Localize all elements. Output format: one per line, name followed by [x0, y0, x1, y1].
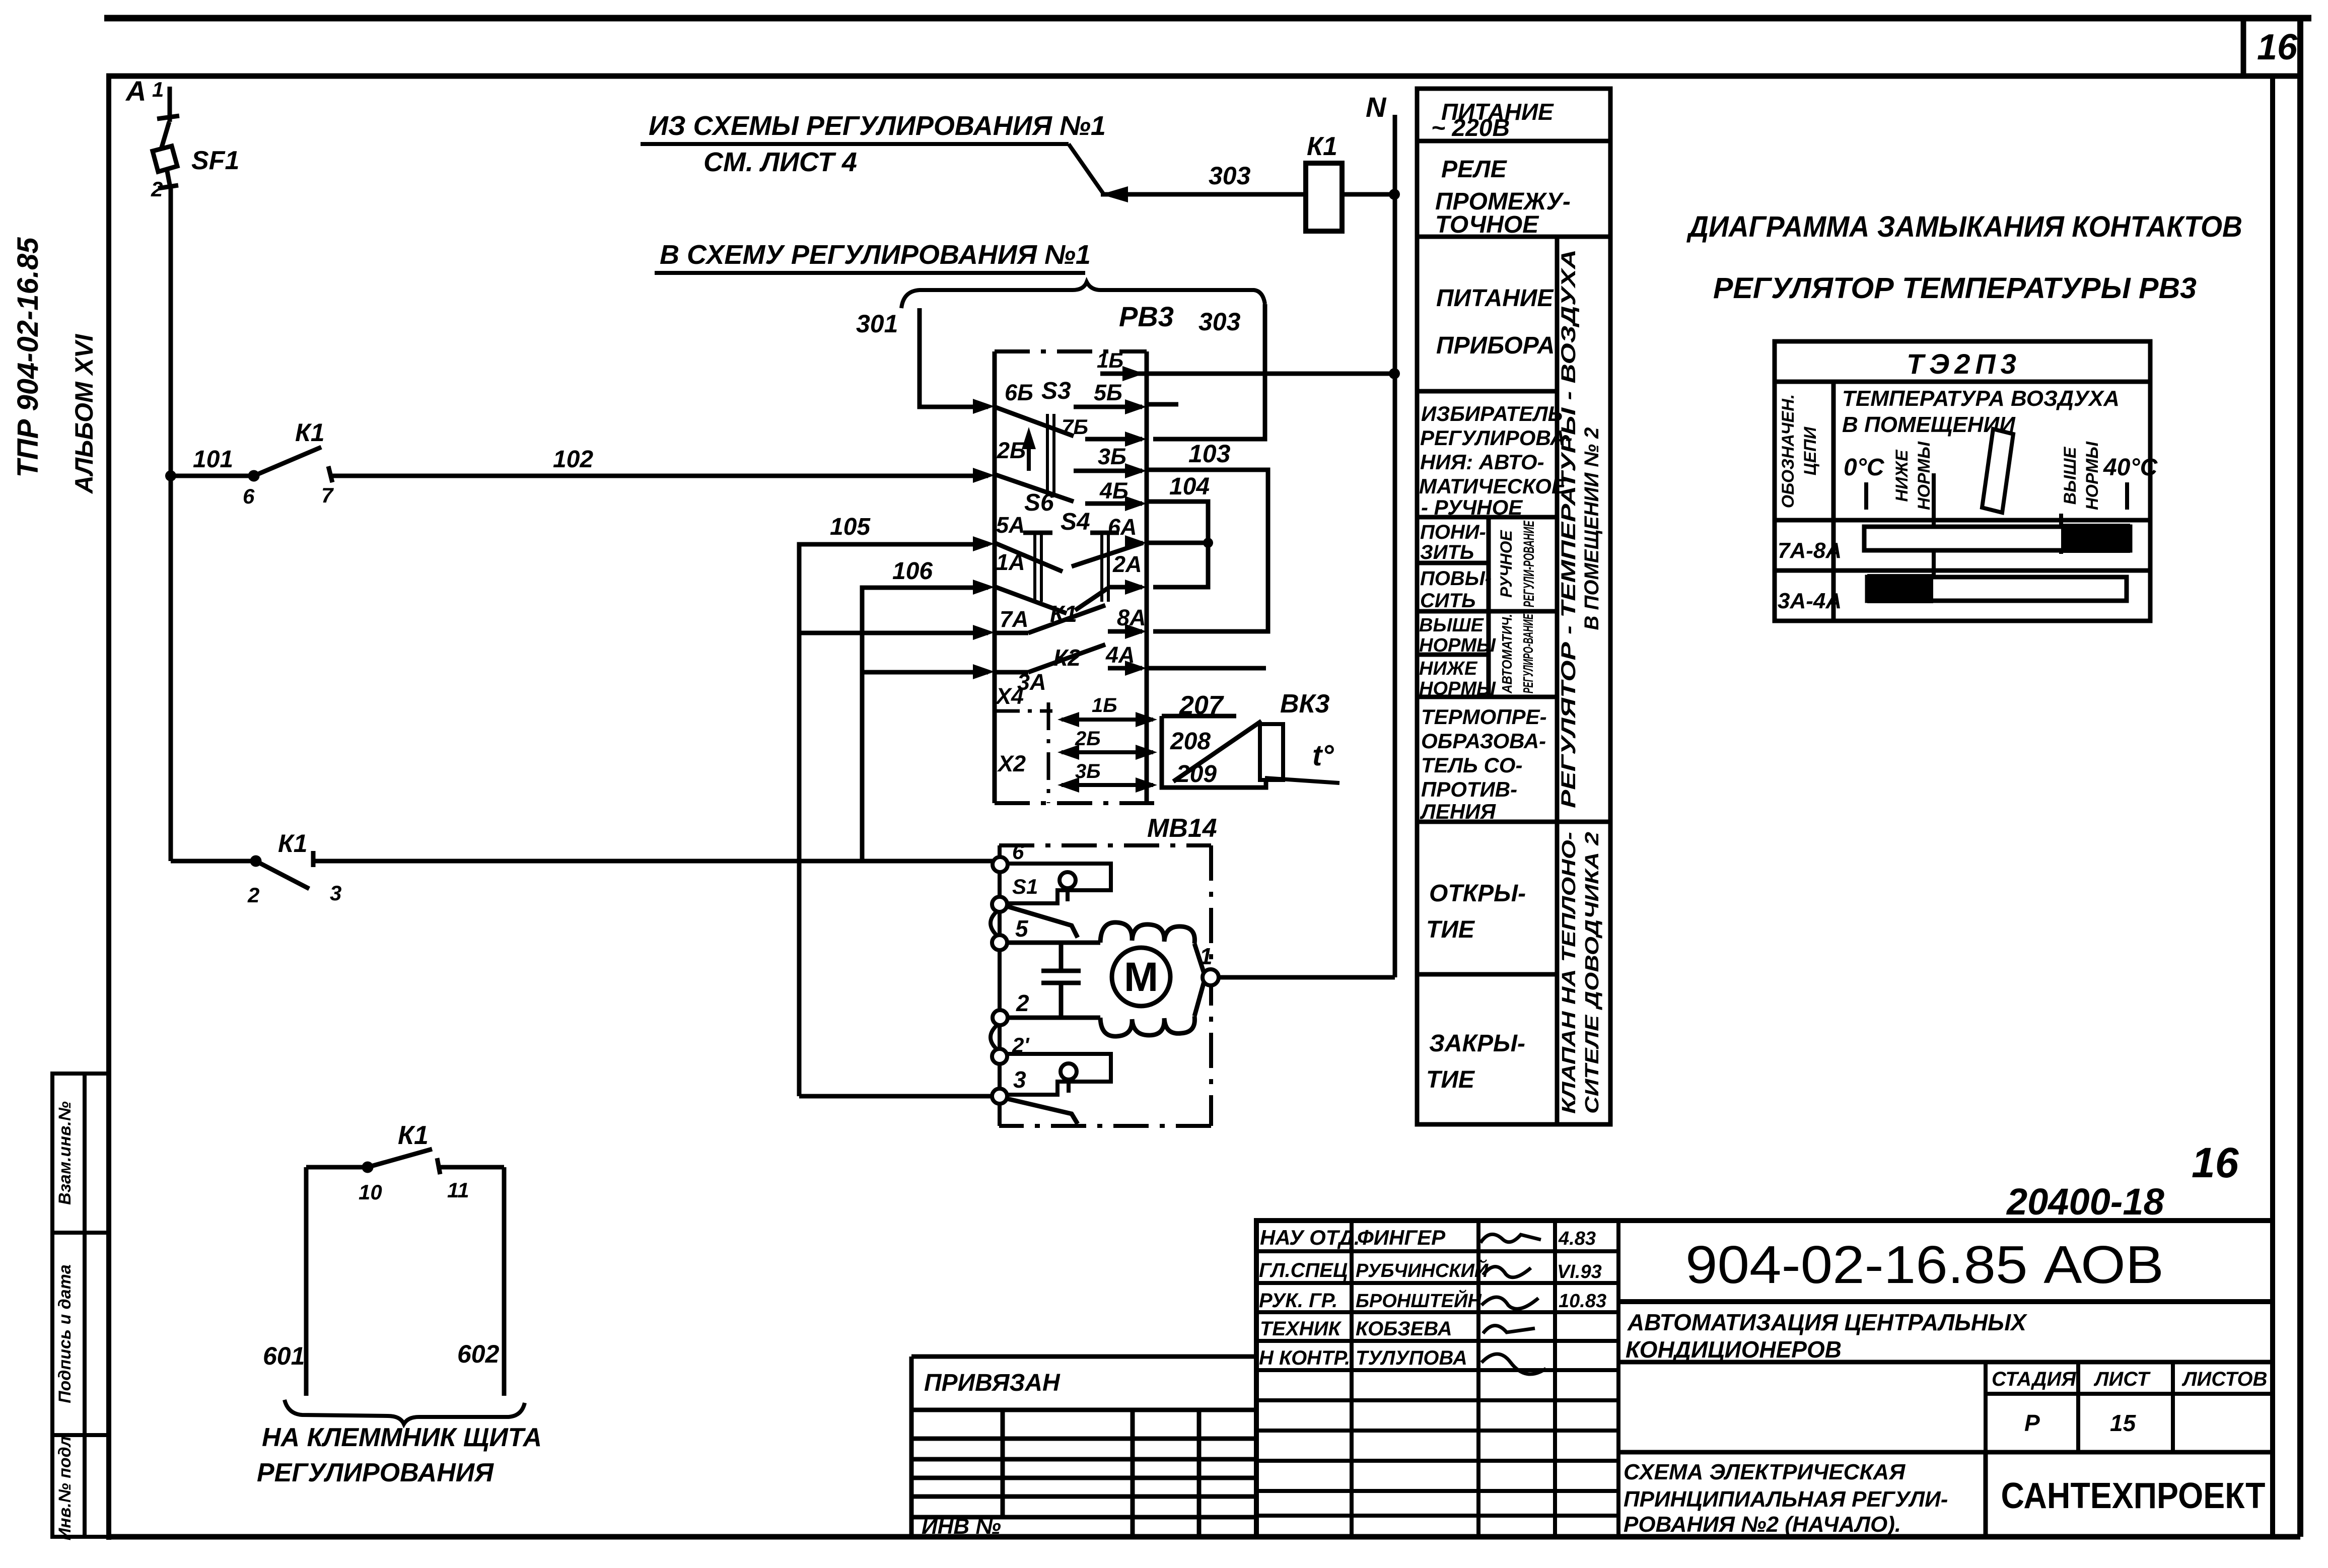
motor M winding bottom	[1100, 1016, 1194, 1036]
svg-text:602: 602	[457, 1340, 500, 1368]
wire 105 arrow into PV3 terminal 5A	[973, 536, 995, 551]
wire to MV14 terminal 3	[799, 1094, 991, 1099]
svg-text:ТИЕ: ТИЕ	[1426, 916, 1475, 943]
contact K1 (pins 6-7)	[250, 447, 332, 482]
svg-text:- РУЧНОЕ: - РУЧНОЕ	[1421, 495, 1523, 519]
note underline	[641, 142, 1069, 146]
svg-text:S1: S1	[1012, 875, 1038, 898]
limit switch box lower (3)	[1006, 1054, 1111, 1095]
terminal X4 dash	[995, 709, 1052, 713]
svg-text:103: 103	[1188, 440, 1231, 468]
junction on N at coil	[1389, 189, 1400, 200]
svg-text:10.83: 10.83	[1559, 1291, 1606, 1312]
svg-text:НОРМЫ: НОРМЫ	[2083, 441, 2102, 510]
svg-text:СИТЬ: СИТЬ	[1420, 590, 1475, 612]
svg-text:601: 601	[263, 1342, 305, 1370]
capacitor C	[1041, 943, 1081, 1018]
svg-text:16: 16	[2192, 1139, 2239, 1186]
svg-text:15: 15	[2110, 1410, 2137, 1436]
PV3 bottom boundary (dash-dot)	[995, 801, 1154, 805]
frame right outer border	[2297, 18, 2303, 1537]
wire 301 (from brace to PV3 terminal 6B)	[920, 308, 988, 407]
wire to PV3 terminal 7A	[799, 631, 988, 635]
svg-text:101: 101	[193, 446, 233, 473]
svg-text:К1: К1	[1050, 601, 1077, 627]
limit switch blade lower	[1007, 1099, 1078, 1124]
bar 7A-8A closed segment	[2061, 524, 2130, 553]
wire 1B to N	[1147, 372, 1395, 376]
wire 301 arrowhead at 6B	[973, 399, 995, 414]
svg-text:РУК. ГР.: РУК. ГР.	[1259, 1290, 1337, 1312]
svg-text:КОНДИЦИОНЕРОВ: КОНДИЦИОНЕРОВ	[1626, 1336, 1842, 1363]
svg-text:РОВАНИЯ №2 (НАЧАЛО).: РОВАНИЯ №2 (НАЧАЛО).	[1624, 1512, 1901, 1537]
frame right inner border	[2270, 76, 2275, 1537]
sensor link 3B double arrow	[1057, 777, 1157, 793]
wire 105	[799, 544, 988, 1096]
svg-text:106: 106	[892, 558, 933, 585]
svg-text:16: 16	[2257, 27, 2298, 67]
svg-text:Н КОНТР.: Н КОНТР.	[1259, 1347, 1350, 1369]
svg-text:ЗИТЬ: ЗИТЬ	[1420, 541, 1474, 563]
svg-text:1А: 1А	[996, 549, 1025, 575]
wire 602	[502, 1167, 507, 1396]
wire 6A to 104	[1147, 541, 1208, 545]
svg-text:303: 303	[1198, 308, 1241, 336]
svg-text:ИНВ №: ИНВ №	[922, 1514, 1001, 1539]
setpoint parallelogram	[1982, 429, 2013, 513]
svg-text:102: 102	[553, 446, 593, 473]
svg-text:ТИЕ: ТИЕ	[1426, 1066, 1475, 1093]
svg-text:ТОЧНОЕ: ТОЧНОЕ	[1435, 211, 1539, 238]
wire 106 arrow into PV3 terminal 1A	[973, 580, 995, 595]
svg-text:ТУЛУПОВА: ТУЛУПОВА	[1356, 1347, 1467, 1369]
svg-text:МАТИЧЕСКОЕ: МАТИЧЕСКОЕ	[1419, 474, 1567, 498]
svg-text:ПРИВЯЗАН: ПРИВЯЗАН	[924, 1370, 1061, 1396]
svg-text:5: 5	[1015, 915, 1029, 942]
svg-text:2Б: 2Б	[1075, 728, 1101, 750]
scale tick 40	[2125, 482, 2129, 510]
svg-text:209: 209	[1176, 761, 1217, 788]
svg-text:10: 10	[359, 1180, 382, 1204]
wire to PV3 terminal 3A	[862, 670, 988, 675]
svg-text:В СХЕМУ РЕГУЛИРОВАНИЯ №1: В СХЕМУ РЕГУЛИРОВАНИЯ №1	[660, 240, 1091, 270]
svg-text:РЕГУЛЯТОР ТЕМПЕРАТУРЫ РВ3: РЕГУЛЯТОР ТЕМПЕРАТУРЫ РВ3	[1713, 272, 2197, 305]
scale tick 0	[1864, 482, 1868, 510]
svg-text:2А: 2А	[1112, 551, 1142, 577]
wire 104 (4B to 2A)	[1147, 502, 1208, 587]
motor M circle	[1112, 948, 1170, 1006]
below-normal division line	[1932, 473, 1936, 579]
svg-text:ПРИБОРА: ПРИБОРА	[1436, 332, 1555, 359]
svg-text:БРОНШТЕЙН: БРОНШТЕЙН	[1356, 1289, 1482, 1312]
svg-text:А: А	[125, 75, 146, 107]
PV3 top boundary (dash-dot)	[995, 349, 1147, 353]
svg-text:2: 2	[1016, 990, 1029, 1016]
wire 303 left arrowhead	[1101, 186, 1128, 202]
svg-text:ОТКРЫ-: ОТКРЫ-	[1429, 880, 1526, 907]
4A arrowhead	[1125, 661, 1147, 676]
svg-text:5А: 5А	[996, 512, 1025, 538]
contact K2 (3A-4A)	[995, 645, 1142, 672]
svg-text:~ 220В: ~ 220В	[1431, 115, 1510, 141]
lamp symbol upper	[1060, 872, 1076, 901]
S3 actuation arrow (up)	[1022, 427, 1036, 471]
bar 3A-4A outline	[1867, 577, 2127, 601]
svg-text:РЕГУЛИРОВАНИЯ: РЕГУЛИРОВАНИЯ	[257, 1458, 494, 1487]
svg-text:3: 3	[330, 881, 341, 905]
svg-text:104: 104	[1169, 473, 1210, 500]
svg-text:ЛИСТ: ЛИСТ	[2093, 1368, 2151, 1390]
terminal 4B wire with arrow	[1085, 496, 1147, 511]
terminal 2A stub with arrow	[1108, 580, 1147, 595]
8A arrowhead	[1125, 624, 1147, 639]
motor terminal 1 circle	[1203, 969, 1219, 985]
contact K1 (7A-8A)	[995, 605, 1142, 633]
svg-text:РЕГУЛИРОВА-: РЕГУЛИРОВА-	[1420, 426, 1573, 450]
terminal 4A outside stub	[1147, 666, 1266, 671]
wire to MV14 (contact K1 2-3 branch)	[171, 859, 252, 864]
svg-text:ТЕЛЬ СО-: ТЕЛЬ СО-	[1421, 753, 1522, 777]
organization cell divider	[1984, 1452, 1988, 1537]
svg-text:2: 2	[247, 883, 259, 907]
svg-text:7: 7	[321, 483, 334, 507]
wire terminal 1 to N	[1219, 975, 1395, 980]
bow 2-2'	[991, 1024, 998, 1050]
project name cell divider	[1618, 1360, 2273, 1365]
junction on N at 1B wire	[1389, 368, 1400, 379]
junction 6A on 104	[1203, 538, 1213, 548]
note underline	[655, 271, 1085, 275]
svg-text:6: 6	[243, 484, 255, 508]
svg-text:Взам.инв.№: Взам.инв.№	[55, 1101, 75, 1205]
function table grid	[1417, 89, 1610, 1124]
svg-text:РЕГУЛИ-РОВАНИЕ: РЕГУЛИ-РОВАНИЕ	[1521, 520, 1537, 607]
svg-text:Р: Р	[2024, 1410, 2040, 1436]
svg-text:6А: 6А	[1108, 514, 1137, 540]
svg-text:105: 105	[830, 514, 871, 540]
svg-text:Подпись и дата: Подпись и дата	[55, 1264, 75, 1403]
stage/sheet header grid	[1618, 1362, 2273, 1452]
svg-text:АВТОМАТИЧ.: АВТОМАТИЧ.	[1499, 614, 1515, 694]
svg-text:3А-4А: 3А-4А	[1778, 589, 1842, 613]
svg-text:ТЕРМОПРЕ-: ТЕРМОПРЕ-	[1421, 705, 1547, 729]
svg-text:ИЗ СХЕМЫ РЕГУЛИРОВАНИЯ №1: ИЗ СХЕМЫ РЕГУЛИРОВАНИЯ №1	[649, 111, 1106, 141]
svg-text:НИЖЕ: НИЖЕ	[1892, 449, 1912, 502]
svg-text:СИТЕЛЕ ДОВОДЧИКА 2: СИТЕЛЕ ДОВОДЧИКА 2	[1582, 832, 1603, 1114]
bow S1'-5	[991, 910, 998, 937]
svg-text:НА КЛЕММНИК ЩИТА: НА КЛЕММНИК ЩИТА	[262, 1423, 542, 1452]
wire from coil K1 to N	[1342, 192, 1395, 197]
wire 106	[862, 588, 988, 861]
svg-text:ТПР 904-02-16.85: ТПР 904-02-16.85	[12, 237, 44, 478]
junction at wire 101	[165, 470, 176, 481]
svg-text:АВТОМАТИЗАЦИЯ ЦЕНТРАЛЬНЫХ: АВТОМАТИЗАЦИЯ ЦЕНТРАЛЬНЫХ	[1627, 1309, 2027, 1335]
wire 303 (to relay coil K1)	[1101, 192, 1306, 197]
svg-text:7А: 7А	[1000, 606, 1029, 632]
3B arrowhead	[1125, 463, 1147, 478]
svg-text:НОРМЫ: НОРМЫ	[1915, 441, 1934, 510]
S4 blade to 2A	[1075, 588, 1108, 610]
svg-text:VI.93: VI.93	[1557, 1261, 1602, 1282]
svg-text:К2: К2	[1053, 645, 1081, 671]
svg-text:РВ3: РВ3	[1119, 301, 1174, 332]
svg-text:СТАДИЯ: СТАДИЯ	[1992, 1368, 2076, 1390]
svg-text:1Б: 1Б	[1097, 348, 1123, 372]
sheet number box divider	[2241, 18, 2246, 76]
contact K1 (10-11)	[306, 1149, 504, 1174]
svg-text:В ПОМЕЩЕНИИ № 2: В ПОМЕЩЕНИИ № 2	[1581, 427, 1603, 630]
selector switch S3 upper blade (6B-5B)	[995, 407, 1142, 436]
wire 101	[171, 474, 251, 478]
svg-text:3Б: 3Б	[1098, 444, 1126, 469]
sensor link 2B double arrow	[1057, 745, 1157, 760]
arrow into PV3 terminal 3A	[973, 664, 995, 679]
phase A vertical wire	[169, 476, 173, 861]
svg-text:6: 6	[1012, 840, 1024, 864]
svg-text:ПОНИ-: ПОНИ-	[1420, 521, 1486, 543]
frame top outer line	[104, 15, 2311, 22]
svg-text:SF1: SF1	[191, 146, 239, 175]
svg-text:КОБЗЕВА: КОБЗЕВА	[1356, 1318, 1452, 1340]
svg-text:М: М	[1124, 954, 1158, 1000]
wire 601	[304, 1167, 309, 1396]
VK3 box	[1162, 716, 1266, 788]
title block outer box	[1256, 1221, 2273, 1537]
terminal 3 circle	[992, 1089, 1007, 1104]
bar 7A-8A outline	[1864, 527, 2130, 550]
document number cell	[1618, 1299, 2273, 1304]
svg-text:ОБРАЗОВА-: ОБРАЗОВА-	[1421, 729, 1546, 753]
terminal 6 circle	[993, 857, 1008, 872]
svg-text:К1: К1	[398, 1121, 429, 1150]
svg-text:КЛАПАН НА ТЕПЛОНО-: КЛАПАН НА ТЕПЛОНО-	[1559, 832, 1580, 1114]
S4 blade to 6A	[1072, 543, 1143, 566]
svg-text:40°С: 40°С	[2103, 454, 2158, 481]
svg-text:11: 11	[447, 1178, 469, 1202]
svg-text:ВЫШЕ: ВЫШЕ	[2061, 446, 2080, 505]
wire 303 (from brace to PV3 terminal 7B)	[1153, 304, 1265, 439]
svg-text:3Б: 3Б	[1075, 760, 1101, 782]
svg-text:1Б: 1Б	[1092, 694, 1117, 717]
svg-text:НАУ ОТД.: НАУ ОТД.	[1260, 1226, 1360, 1249]
svg-text:НИЖЕ: НИЖЕ	[1419, 658, 1478, 679]
lamp symbol lower	[1061, 1063, 1077, 1093]
brace under wires 601/602	[285, 1400, 525, 1424]
wire 103 (3B to 8A)	[1147, 470, 1268, 631]
svg-text:ДИАГРАММА ЗАМЫКАНИЯ КОНТАКТОВ: ДИАГРАММА ЗАМЫКАНИЯ КОНТАКТОВ	[1686, 210, 2242, 243]
S3 linkage (double line)	[1047, 414, 1054, 496]
bar 3A-4A closed segment	[1867, 574, 1933, 603]
svg-text:ПРОТИВ-: ПРОТИВ-	[1421, 777, 1517, 801]
svg-text:ПРИНЦИПИАЛЬНАЯ РЕГУЛИ-: ПРИНЦИПИАЛЬНАЯ РЕГУЛИ-	[1624, 1487, 1948, 1512]
svg-text:К1: К1	[278, 829, 308, 858]
svg-text:СМ. ЛИСТ 4: СМ. ЛИСТ 4	[703, 147, 857, 177]
svg-text:НОРМЫ: НОРМЫ	[1419, 678, 1496, 699]
svg-text:ЛИСТОВ: ЛИСТОВ	[2181, 1368, 2268, 1390]
svg-text:ТЭ2П3: ТЭ2П3	[1907, 348, 2021, 380]
frame bottom border	[107, 1534, 2300, 1540]
svg-text:7Б: 7Б	[1062, 415, 1088, 439]
svg-text:ИЗБИРАТЕЛЬ: ИЗБИРАТЕЛЬ	[1421, 402, 1563, 425]
sensor link 1B double arrow	[1057, 712, 1157, 727]
S6 blade from 1A	[995, 587, 1067, 613]
TE2P3 table grid	[1775, 341, 2150, 621]
breaker SF1	[153, 87, 179, 476]
neutral N vertical wire	[1393, 115, 1397, 977]
svg-text:0°С: 0°С	[1844, 454, 1885, 481]
svg-text:РЕГУЛИРО-ВАНИЕ: РЕГУЛИРО-ВАНИЕ	[1520, 613, 1536, 693]
wire 102 arrow into PV3 terminal 2B	[973, 468, 995, 483]
svg-text:7А-8А: 7А-8А	[1778, 538, 1842, 563]
svg-text:t°: t°	[1312, 739, 1334, 772]
switch S6 linkage double line	[1035, 533, 1041, 602]
attachment table	[911, 1357, 1256, 1537]
svg-text:Х4: Х4	[995, 683, 1024, 709]
svg-text:S4: S4	[1061, 509, 1090, 535]
frame left border	[106, 74, 111, 1540]
svg-text:НОРМЫ: НОРМЫ	[1419, 635, 1496, 656]
svg-text:РУБЧИНСКИЙ: РУБЧИНСКИЙ	[1356, 1259, 1489, 1281]
svg-text:S6: S6	[1024, 489, 1054, 516]
MV14 terminal strip	[998, 845, 1002, 1126]
svg-text:208: 208	[1170, 728, 1211, 755]
svg-text:6Б: 6Б	[1005, 380, 1033, 405]
brace over wires 301/303	[901, 282, 1265, 308]
switch S4 linkage double line	[1102, 533, 1108, 602]
svg-text:3: 3	[1013, 1066, 1026, 1093]
signature table grid	[1256, 1221, 1618, 1537]
svg-text:1: 1	[152, 78, 164, 101]
VK3 diagonal	[1173, 721, 1261, 781]
svg-text:303: 303	[1209, 162, 1251, 190]
terminal 7B wire with arrow	[1085, 432, 1147, 447]
pointer line to t	[1265, 778, 1339, 783]
svg-text:ТЕМПЕРАТУРА ВОЗДУХА: ТЕМПЕРАТУРА ВОЗДУХА	[1842, 386, 2120, 411]
svg-text:N: N	[1366, 91, 1387, 123]
svg-text:5Б: 5Б	[1094, 380, 1122, 405]
wire from contact K1(2-3) to MV14 terminal 6	[313, 859, 993, 864]
svg-text:ПИТАНИЕ: ПИТАНИЕ	[1436, 285, 1554, 312]
svg-text:2: 2	[151, 177, 163, 201]
terminal S1' circle	[992, 897, 1007, 912]
svg-text:САНТЕХПРОЕКТ: САНТЕХПРОЕКТ	[2001, 1476, 2266, 1516]
5B arrowhead	[1125, 399, 1147, 414]
svg-text:ВК3: ВК3	[1280, 689, 1330, 719]
terminal 2 circle	[993, 1010, 1008, 1025]
svg-text:ПОВЫ-: ПОВЫ-	[1420, 567, 1492, 590]
terminal 2' circle	[992, 1049, 1007, 1064]
left stamp column	[52, 1074, 109, 1537]
svg-text:4Б: 4Б	[1099, 478, 1128, 504]
MV14 boundary (dash-dot)	[999, 845, 1211, 1126]
switch S4 tee bar	[1090, 531, 1119, 535]
svg-text:301: 301	[856, 310, 898, 338]
wire 102	[332, 474, 988, 478]
svg-text:Х2: Х2	[997, 751, 1026, 776]
svg-text:ГЛ.СПЕЦ: ГЛ.СПЕЦ	[1259, 1259, 1348, 1281]
wire terminal 5 to motor winding	[1007, 941, 1100, 945]
above-normal division line	[2059, 514, 2063, 554]
contact K1 (pins 2-3)	[252, 851, 313, 889]
terminal 5 circle	[992, 935, 1007, 950]
switch S6 tee bar	[1023, 531, 1052, 535]
svg-text:ФИНГЕР: ФИНГЕР	[1357, 1226, 1446, 1249]
svg-text:К1: К1	[1307, 132, 1337, 161]
leader diagonal from note to wire 303	[1069, 144, 1104, 194]
svg-text:ЛЕНИЯ: ЛЕНИЯ	[1420, 800, 1496, 823]
arrow into PV3 terminal 7A	[973, 625, 995, 640]
svg-text:ОБОЗНАЧЕН.: ОБОЗНАЧЕН.	[1779, 394, 1798, 509]
svg-text:Инв.№ подл.: Инв.№ подл.	[55, 1432, 75, 1541]
svg-text:СХЕМА ЭЛЕКТРИЧЕСКАЯ: СХЕМА ЭЛЕКТРИЧЕСКАЯ	[1624, 1460, 1906, 1484]
svg-text:ЦЕПИ: ЦЕПИ	[1801, 426, 1820, 475]
wire terminal 2 to motor	[1007, 1016, 1100, 1020]
svg-text:ЗАКРЫ-: ЗАКРЫ-	[1429, 1030, 1525, 1057]
svg-text:РЕГУЛЯТОР - ТЕМПЕРАТУРЫ - ВОЗД: РЕГУЛЯТОР - ТЕМПЕРАТУРЫ - ВОЗДУХА	[1558, 249, 1580, 808]
motor right connectors	[1194, 944, 1205, 1016]
PV3 right terminal strip	[1145, 351, 1149, 803]
terminal 5B outside stub	[1147, 402, 1178, 407]
relay coil K1	[1306, 163, 1342, 231]
svg-text:4.83: 4.83	[1558, 1228, 1596, 1249]
terminal 6A arrowhead	[1125, 535, 1147, 550]
S6 blade from 5A	[995, 543, 1063, 572]
frame top inner line	[106, 74, 2303, 79]
svg-text:ТЕХНИК: ТЕХНИК	[1260, 1318, 1342, 1340]
PV3 inner boundary (dash-dot)	[1047, 702, 1050, 803]
svg-text:РЕЛЕ: РЕЛЕ	[1441, 156, 1508, 183]
limit switch box upper (S1)	[1006, 864, 1111, 903]
motor M winding top	[1100, 922, 1194, 944]
svg-text:904-02-16.85 АОВ: 904-02-16.85 АОВ	[1685, 1235, 2164, 1295]
svg-text:ВЫШЕ: ВЫШЕ	[1419, 615, 1485, 636]
svg-text:НИЯ: АВТО-: НИЯ: АВТО-	[1420, 450, 1544, 474]
sensing resistor element	[1260, 724, 1283, 780]
terminal 1B wire with arrow	[1100, 366, 1147, 381]
svg-text:К1: К1	[295, 418, 325, 447]
svg-text:АЛЬБОМ XVI: АЛЬБОМ XVI	[70, 334, 98, 494]
svg-text:РУЧНОЕ: РУЧНОЕ	[1497, 529, 1515, 597]
svg-text:1: 1	[1200, 943, 1213, 969]
selector switch S3 lower blade (2B-3B)	[995, 471, 1142, 502]
svg-text:2Б: 2Б	[997, 438, 1026, 463]
limit switch blade upper	[1007, 906, 1078, 938]
svg-text:В ПОМЕЩЕНИИ: В ПОМЕЩЕНИИ	[1842, 412, 2016, 437]
svg-text:S3: S3	[1041, 378, 1071, 404]
svg-text:20400-18: 20400-18	[2006, 1181, 2165, 1223]
svg-text:МВ14: МВ14	[1147, 814, 1217, 843]
PV3 left terminal strip	[993, 351, 997, 803]
